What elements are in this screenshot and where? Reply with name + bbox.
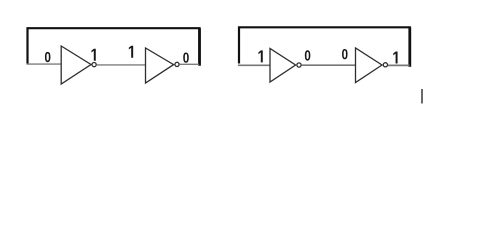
inverter U4 output bubble bbox=[383, 63, 387, 67]
inverter U4 (right latch, second NOT gate) triangle bbox=[356, 48, 383, 83]
inverter U1 output bubble bbox=[92, 63, 96, 67]
inverter U3 (right latch, first NOT gate) triangle bbox=[270, 49, 296, 83]
feedback loop wire (left latch box) bbox=[28, 28, 200, 65]
inverter U2 output bubble bbox=[175, 62, 179, 66]
inverter U1 (left latch, first NOT gate) triangle bbox=[61, 46, 91, 84]
node B value label "1" (U2 input) bbox=[129, 46, 133, 58]
wire: U4 output to feedback loop (right latch) bbox=[388, 64, 410, 66]
wire: input net A to inverter U1 (left latch) bbox=[27, 63, 63, 65]
node C value label "0" (U2 output) bbox=[183, 52, 189, 62]
node A value label "0" bbox=[45, 52, 51, 62]
node B value label "1" (U1 output) bbox=[91, 49, 95, 61]
inverter U3 output bubble bbox=[297, 63, 301, 67]
text cursor mark bbox=[421, 89, 423, 104]
inverter U2 (left latch, second NOT gate) triangle bbox=[146, 48, 174, 83]
wire: input net D to inverter U3 (right latch) bbox=[238, 64, 270, 66]
wire: U2 output to feedback loop (left latch) bbox=[180, 63, 199, 65]
node E value label "0" (U4 input) bbox=[342, 49, 348, 59]
node F value label "1" (U4 output) bbox=[393, 52, 397, 64]
node D value label "1" bbox=[258, 50, 262, 62]
wire: node B between U1 bubble and U2 input bbox=[97, 64, 146, 66]
wire: node E between U3 bubble and U4 input bbox=[302, 64, 356, 66]
node E value label "0" (U3 output) bbox=[305, 50, 311, 60]
feedback loop wire (right latch box) bbox=[239, 27, 410, 67]
